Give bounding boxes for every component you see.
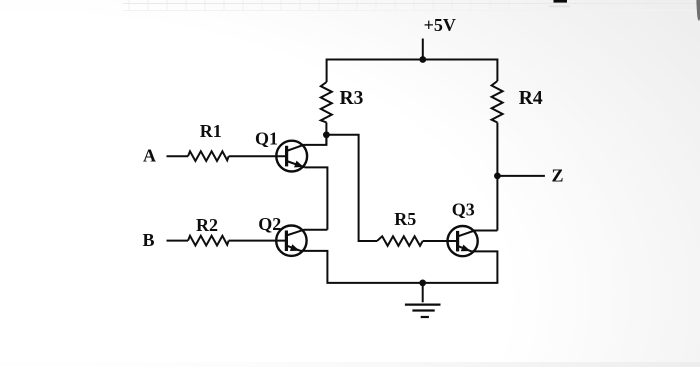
cursor fragment artifact [696, 0, 700, 21]
faint grid strip artifact [123, 0, 700, 11]
svg-text:A: A [143, 145, 156, 165]
svg-text:Q1: Q1 [255, 129, 278, 149]
wire Q3 emitter to ground rail [423, 251, 498, 283]
junction dot supply node [419, 56, 426, 63]
wire R2 to Q2 base [229, 240, 287, 242]
wire R3 bottom lead [325, 123, 327, 145]
resistor R4 [492, 81, 503, 123]
transistor Q1 [276, 135, 326, 172]
transistor Q3 [448, 226, 498, 256]
wire node to R5 [326, 135, 377, 241]
svg-text:B: B [143, 230, 155, 250]
wire top supply rail [327, 60, 498, 83]
svg-text:R3: R3 [340, 88, 364, 109]
svg-text:Q3: Q3 [452, 199, 475, 219]
svg-text:Q2: Q2 [258, 214, 281, 234]
wire Q1 emitter to Q2 collector [305, 167, 328, 229]
wire +5V stub [422, 39, 424, 60]
toolbar fragment artifact [554, 0, 568, 3]
resistor R3 [321, 82, 332, 123]
wire input B [167, 240, 189, 242]
svg-text:R4: R4 [519, 88, 543, 109]
junction dot collector node [323, 131, 330, 138]
junction dot ground node [419, 280, 426, 287]
resistor R2 [188, 236, 229, 246]
svg-text:R5: R5 [394, 209, 416, 229]
junction dot Z node [494, 173, 501, 180]
wire R1 to Q1 base [229, 155, 287, 157]
wire Z node to label [497, 175, 545, 177]
wire Z node to Q3 collector [496, 176, 498, 231]
wire R4 to Z node [496, 123, 498, 176]
wire ground stub [422, 283, 424, 302]
ground [405, 305, 441, 317]
resistor R1 [188, 151, 229, 161]
svg-text:+5V: +5V [424, 15, 456, 35]
svg-text:R1: R1 [200, 121, 222, 141]
resistor R5 [377, 236, 423, 246]
wire input A [167, 155, 189, 157]
svg-text:R2: R2 [196, 215, 218, 235]
transistor Q2 [276, 226, 327, 256]
wire R5 to Q3 base [423, 240, 458, 242]
wire Q2 emitter to ground rail [301, 251, 423, 283]
svg-text:Z: Z [552, 166, 564, 186]
